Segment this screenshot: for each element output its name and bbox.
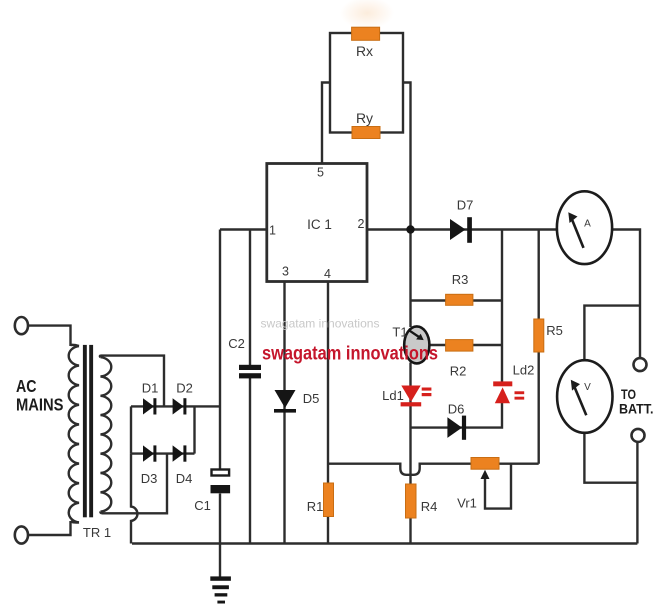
wire: R5 bottom to Vr1 wire — [538, 352, 540, 464]
wire: R5 branch from pin2 wire — [538, 230, 540, 320]
transformer TR1 secondary winding — [101, 357, 112, 511]
battery terminal minus — [632, 429, 645, 442]
LED Ld1 — [401, 386, 432, 407]
transformer TR1 primary entry hooks — [71, 345, 80, 523]
diode D6 — [447, 416, 466, 440]
resistor R2 — [446, 340, 473, 352]
svg-text:swagatam innovations: swagatam innovations — [261, 317, 380, 331]
svg-text:IC 1: IC 1 — [307, 217, 332, 232]
svg-text:D2: D2 — [176, 381, 193, 396]
wire: Vr1 wiper loop — [485, 464, 511, 509]
diode D1 — [143, 398, 156, 414]
capacitor C1 — [211, 470, 231, 494]
wire: V meter bottom to minus line — [584, 433, 637, 483]
wire: battery minus terminal down to rail — [636, 442, 638, 544]
diode D5 — [274, 390, 296, 413]
svg-text:C2: C2 — [228, 336, 245, 351]
wire: pin 1 to C1 node — [220, 228, 267, 230]
svg-text:MAINS: MAINS — [16, 394, 64, 414]
svg-text:Rx: Rx — [356, 43, 373, 59]
wire: secondary top to D1-D2 junction — [101, 356, 164, 407]
capacitor C2 — [239, 365, 261, 379]
svg-text:D5: D5 — [303, 391, 320, 406]
svg-text:TR 1: TR 1 — [83, 525, 111, 540]
svg-text:Ld1: Ld1 — [382, 388, 404, 403]
wire: pin 4 through R1 to rail — [327, 282, 329, 544]
svg-text:swagatam innovations: swagatam innovations — [262, 344, 438, 365]
svg-text:R2: R2 — [450, 364, 467, 379]
wire: C1 branch lower + ground stem — [219, 494, 221, 577]
resistor Ry — [352, 127, 380, 139]
resistor R3 — [446, 294, 473, 305]
wire: A meter to battery plus terminal — [612, 230, 640, 359]
diode D2 — [173, 398, 187, 414]
resistor R5 — [534, 319, 544, 352]
diode D3 — [143, 445, 156, 461]
svg-text:C1: C1 — [194, 498, 211, 513]
AC input terminal top — [15, 317, 28, 334]
IC 1 box — [267, 164, 367, 282]
wire: right rail from pin2 wire down to Ld2 — [501, 230, 503, 382]
LED Ld2 — [493, 381, 524, 403]
svg-text:D7: D7 — [457, 198, 474, 213]
battery terminal plus — [634, 358, 647, 371]
resistor R4 — [406, 484, 417, 518]
wire: bridge top branch — [131, 405, 220, 407]
ground symbol — [210, 576, 231, 603]
svg-text:R4: R4 — [421, 499, 438, 514]
transformer TR1 core bars — [83, 345, 87, 517]
wire: C2 branch lower — [249, 378, 251, 544]
svg-text:V: V — [584, 382, 591, 393]
wire: Ld2 bottom to D6 cathode — [411, 403, 503, 428]
AC input terminal bottom — [15, 526, 28, 543]
transformer TR1 primary winding — [69, 346, 79, 522]
wire: C2 branch upper — [249, 230, 251, 366]
svg-text:Vr1: Vr1 — [457, 496, 477, 511]
wire: right node of Rx/Ry down to pin2 node — [403, 83, 411, 230]
svg-text:D6: D6 — [448, 402, 465, 417]
junction node at pin2/D7 — [406, 225, 414, 233]
resistor Rx — [352, 27, 380, 40]
wire: C1 branch upper — [219, 230, 221, 470]
svg-text:Ld2: Ld2 — [513, 363, 535, 378]
wire: secondary bottom to D3-D4 junction — [102, 454, 167, 514]
wire: AC bottom terminal to primary — [28, 521, 71, 535]
wire: bias rail with hop over emitter line — [328, 464, 539, 475]
wire: bridge left vertical — [130, 406, 132, 453]
wire: T1 collector line from node — [409, 230, 411, 328]
wire: emitter node through hop to R4 and rail — [409, 429, 411, 544]
svg-text:A: A — [584, 219, 591, 230]
diode D7 — [450, 217, 472, 243]
wire: bridge bottom branch — [131, 452, 195, 454]
potentiometer Vr1 body — [471, 458, 499, 470]
svg-text:3: 3 — [282, 265, 289, 279]
svg-text:D3: D3 — [141, 471, 158, 486]
svg-text:TO: TO — [621, 387, 636, 402]
potentiometer Vr1 wiper arrow — [481, 470, 490, 479]
svg-text:R5: R5 — [546, 323, 563, 338]
wire: pin 2 to D7 and A meter — [367, 228, 557, 230]
diode D4 — [173, 445, 187, 461]
svg-text:T1: T1 — [392, 325, 407, 340]
wire: pin5 to left node of Rx/Ry — [322, 83, 330, 164]
wire: V meter top to plus node — [584, 306, 640, 361]
svg-text:Ry: Ry — [356, 110, 373, 126]
wire: R3 horizontal — [411, 299, 503, 301]
svg-text:D4: D4 — [176, 471, 193, 486]
wire: bottom 0V rail — [132, 542, 637, 544]
svg-text:AC: AC — [16, 376, 37, 396]
wire: T1 base to R2 to right rail — [428, 344, 502, 346]
wire: T1 emitter down to D6 node — [409, 363, 411, 430]
voltmeter V — [557, 360, 612, 433]
transformer TR1 secondary entry hooks — [100, 356, 102, 514]
svg-text:D1: D1 — [142, 381, 159, 396]
wire: bridge right vertical — [193, 406, 195, 453]
svg-text:4: 4 — [324, 267, 331, 281]
svg-text:2: 2 — [358, 217, 365, 231]
watermark glow above Rx — [340, 0, 394, 29]
svg-text:1: 1 — [269, 224, 276, 238]
svg-text:BATT.: BATT. — [619, 402, 654, 417]
ammeter A — [557, 191, 612, 264]
wire: pin 3 through D5 to rail — [283, 282, 285, 544]
svg-text:R1: R1 — [307, 499, 324, 514]
svg-text:R3: R3 — [452, 272, 469, 287]
transistor T1 — [404, 326, 429, 363]
wire: Rx/Ry inner loop rectangle — [330, 33, 403, 133]
wire: AC top terminal to primary — [28, 326, 71, 346]
wire: bridge minus down with hop over secondary wire — [131, 454, 137, 544]
resistor R1 — [324, 483, 334, 517]
svg-text:5: 5 — [317, 165, 324, 179]
